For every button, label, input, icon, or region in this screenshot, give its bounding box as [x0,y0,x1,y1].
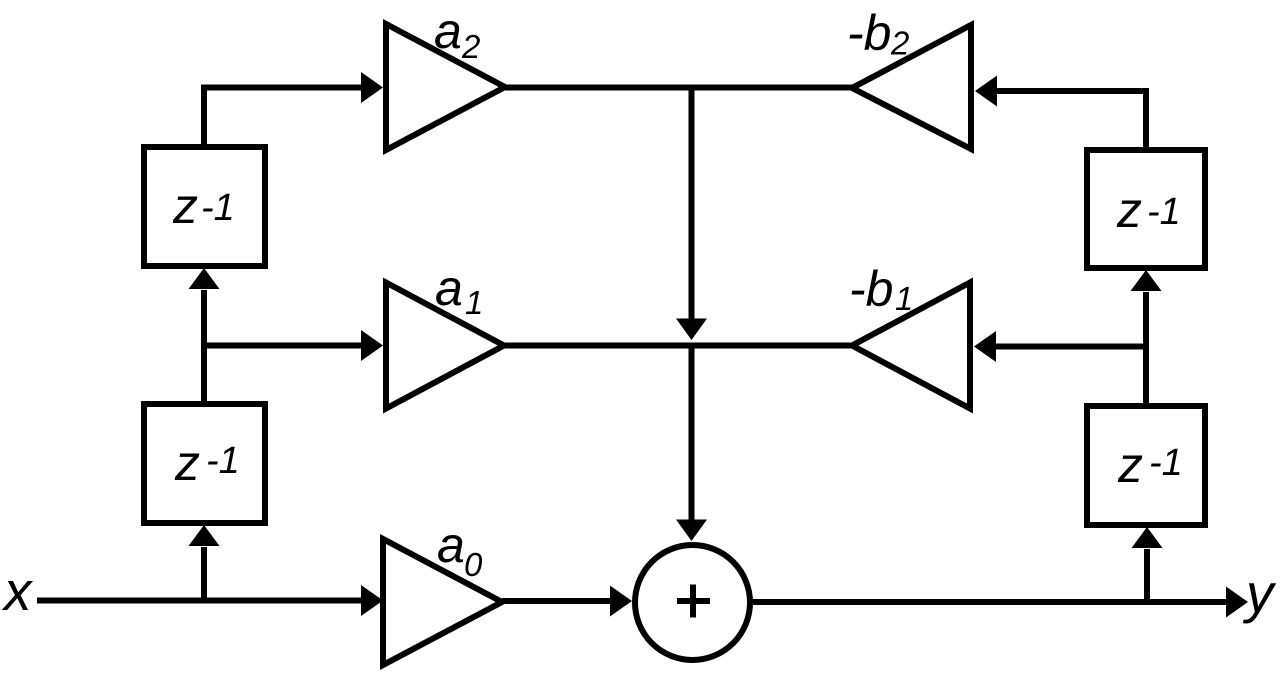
gain triangle a2 [386,24,505,150]
svg-text:-b: -b [847,5,891,61]
wire: center vertical lower segment [689,346,695,521]
svg-text:-1: -1 [201,187,235,229]
arrowhead into a0 [361,585,383,616]
junction at output line / right delay stub [1144,549,1150,602]
arrowhead to y [1226,587,1248,618]
arrowhead into upper-left delay [189,268,220,289]
delay block z^-1 upper-left [144,147,265,266]
wire: lower-left delay to upper-left delay [201,290,207,404]
svg-text:-1: -1 [206,440,240,482]
wire: branch to a1 [204,343,362,349]
gain triangle a0 [383,539,502,665]
arrowhead into lower-left delay [189,525,220,546]
svg-text:-1: -1 [1149,442,1183,484]
arrowhead into summer (left) [610,586,632,617]
summer (adder) circle [635,545,750,660]
wire: input line from x to a0 [37,598,362,604]
arrowhead into -b1 [974,331,996,362]
wire: upper-left delay to a2 [204,88,362,148]
arrowhead into a2 [361,72,383,103]
arrowhead onto a1 line [676,319,707,341]
wire: lower-right delay to upper-right delay [1143,292,1149,406]
arrowhead into lower-right delay [1132,527,1163,548]
svg-text:2: 2 [890,25,909,62]
gain triangle -b1 [852,283,970,409]
svg-text:1: 1 [895,280,913,317]
junction at input line / left delay stub [201,547,207,601]
wire: branch to -b1 [995,344,1146,350]
gain triangle a1 [386,283,504,409]
wire: a1 line to -b1 (through center junction) [504,343,852,349]
svg-text:a: a [434,3,462,59]
svg-text:z: z [172,178,198,234]
svg-text:0: 0 [464,546,483,583]
delay block z^-1 lower-right [1087,406,1205,525]
svg-text:x: x [1,560,34,622]
gain triangle -b2 [852,25,971,149]
plus sign [677,585,710,618]
wire: upper-right delay to -b2 [996,91,1146,150]
svg-text:z: z [1116,182,1142,238]
delay block z^-1 lower-left [144,404,265,523]
svg-text:2: 2 [461,28,480,65]
wire: top line a2 to -b2 [505,85,852,91]
svg-text:z: z [174,435,200,491]
arrowhead into upper-right delay [1131,270,1162,291]
svg-text:z: z [1117,437,1143,493]
svg-text:-b: -b [849,261,893,317]
arrowhead into a1 [361,330,383,361]
svg-text:-1: -1 [1147,191,1181,233]
svg-text:y: y [1242,562,1277,624]
delay block z^-1 upper-right [1087,150,1205,268]
wire: a0 to summer [502,598,611,604]
arrowhead into -b2 [975,76,997,107]
wire: center vertical upper segment [689,88,695,320]
svg-text:1: 1 [465,284,483,321]
wire: summer to y output [750,599,1227,605]
arrowhead into summer [676,520,707,542]
svg-text:a: a [435,260,463,316]
svg-text:a: a [437,517,465,573]
